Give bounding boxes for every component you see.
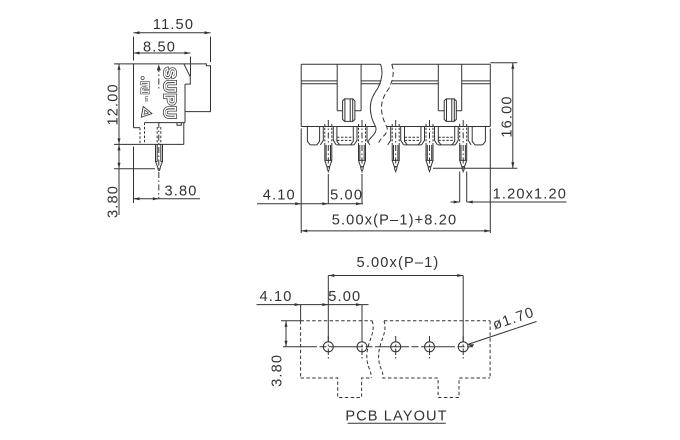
svg-text:16.00: 16.00 bbox=[500, 95, 516, 137]
dimension 1.20x1.20 bbox=[451, 172, 568, 204]
dimension 4.10 / 5.00 (pcb) bbox=[257, 289, 369, 342]
body top edge bbox=[301, 63, 490, 65]
guide block between pin4-pin5 bbox=[438, 127, 455, 145]
pin hidden lines inside lower block bbox=[157, 127, 161, 143]
svg-text:us: us bbox=[143, 96, 149, 102]
guide block between pin1-pin2 bbox=[336, 127, 353, 145]
svg-text:12.00: 12.00 bbox=[106, 83, 122, 125]
dimension 11.50 bbox=[134, 17, 211, 62]
pin guide strip: left end block bbox=[307, 127, 319, 145]
lower block right edge bbox=[183, 123, 185, 145]
footprint right edge bbox=[489, 321, 491, 378]
UL recognized mark bbox=[139, 82, 153, 103]
lower block left hidden edge bbox=[144, 123, 146, 145]
svg-text:5.00x(P–1)+8.20: 5.00x(P–1)+8.20 bbox=[332, 212, 458, 228]
tab channel 2 bbox=[438, 64, 461, 111]
svg-text:3.80: 3.80 bbox=[106, 185, 122, 218]
break line left (pcb) bbox=[367, 321, 373, 378]
dimension 8.50 bbox=[134, 40, 191, 77]
svg-text:8.50: 8.50 bbox=[143, 40, 176, 56]
center axis arrow bbox=[157, 64, 161, 70]
upper rib double lines bbox=[301, 80, 490, 82]
hole 1 bbox=[323, 336, 333, 359]
left bottom step bbox=[134, 127, 141, 129]
dimension 3.80 (horizontal, pin offset) bbox=[134, 147, 201, 204]
break line right (pcb) bbox=[379, 321, 385, 378]
screw 1 bbox=[343, 99, 355, 122]
break line dashed bbox=[379, 64, 394, 142]
svg-text:5.00: 5.00 bbox=[328, 289, 361, 305]
svg-text:ru: ru bbox=[139, 82, 153, 95]
dimension 3.80 (vertical, pin length) bbox=[106, 144, 156, 218]
guide block between pin3-pin4 bbox=[404, 127, 421, 145]
dimension 3.80 (pcb) bbox=[270, 321, 301, 387]
footprint outline top edge (dashed) bbox=[301, 320, 491, 322]
dimension 12.00 (vertical) bbox=[106, 64, 134, 144]
body right edge below flange bbox=[184, 84, 186, 123]
footprint bottom edge with notches bbox=[301, 378, 372, 398]
hole 4 bbox=[425, 336, 435, 359]
connector body outline (side view) bbox=[134, 64, 211, 128]
tab channel 1 bbox=[337, 64, 361, 111]
hole 2 bbox=[357, 336, 367, 359]
svg-text:11.50: 11.50 bbox=[153, 17, 194, 33]
break line solid bbox=[368, 64, 383, 142]
svg-text:SUPU: SUPU bbox=[160, 68, 177, 120]
lower block top-right notch bbox=[177, 123, 181, 126]
svg-text:4.10: 4.10 bbox=[259, 289, 292, 305]
pin 2 bbox=[359, 120, 366, 173]
screw 2 bbox=[444, 99, 456, 122]
hole 5 bbox=[458, 336, 468, 359]
body right edge bbox=[489, 64, 491, 126]
svg-text:1.20x1.20: 1.20x1.20 bbox=[493, 186, 567, 202]
guide strip: right end block bbox=[472, 127, 485, 145]
svg-text:3.80: 3.80 bbox=[165, 184, 198, 200]
molding triangle mark bbox=[141, 106, 153, 119]
dimension 4.10 / 5.00 (front) bbox=[257, 129, 363, 234]
bottom line of lower block bbox=[114, 143, 184, 145]
PCB LAYOUT title bbox=[345, 409, 447, 425]
pin 3 bbox=[392, 120, 399, 173]
svg-text:3.80: 3.80 bbox=[270, 354, 286, 387]
dimension leader o1.70 bbox=[468, 305, 537, 348]
pin 1 bbox=[325, 120, 332, 173]
svg-text:5.00: 5.00 bbox=[330, 187, 363, 203]
dimension 16.00 bbox=[433, 63, 517, 169]
SUPU molded logo text bbox=[160, 68, 177, 120]
chamfer corner at top right of molded body bbox=[184, 64, 190, 84]
dimension 5.00x(P-1)+8.20 bbox=[301, 129, 490, 234]
pin 4 bbox=[426, 120, 433, 173]
body bottom edge bbox=[145, 122, 186, 124]
holes common centerline bbox=[283, 346, 473, 348]
solder pin (side view) bbox=[156, 144, 159, 169]
pin flare funnels bbox=[320, 127, 336, 145]
pin 5 bbox=[460, 120, 467, 173]
dimension 5.00x(P-1) (pcb) bbox=[328, 255, 463, 342]
wire step hidden edge bbox=[139, 128, 141, 145]
svg-text:5.00x(P–1): 5.00x(P–1) bbox=[357, 255, 440, 271]
body bottom edge bbox=[301, 126, 490, 128]
pin center axis line bbox=[158, 66, 160, 90]
svg-text:4.10: 4.10 bbox=[263, 187, 296, 203]
svg-text:PCB LAYOUT: PCB LAYOUT bbox=[345, 409, 447, 425]
body left edge bbox=[300, 64, 302, 126]
hole 3 bbox=[391, 336, 401, 359]
footprint left edge bbox=[300, 321, 302, 378]
